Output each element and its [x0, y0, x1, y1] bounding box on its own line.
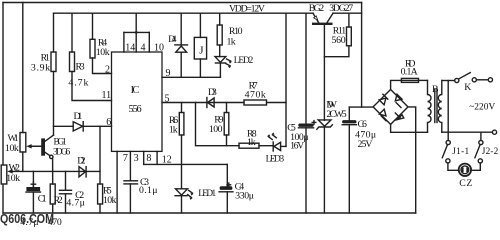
bridge diode bottom-left — [379, 109, 386, 116]
node AC terminal bottom — [492, 130, 496, 134]
svg-text:4: 4 — [141, 43, 146, 54]
svg-text:3: 3 — [134, 153, 139, 164]
diode D2 — [79, 167, 86, 177]
transistor Q BG2 — [312, 13, 333, 120]
svg-text:10: 10 — [154, 43, 164, 54]
svg-text:LED3: LED3 — [266, 154, 285, 164]
svg-text:556: 556 — [129, 104, 142, 115]
wire top rail — [3, 2, 362, 4]
svg-text:16V: 16V — [290, 141, 304, 152]
wire bottom ground rail — [3, 212, 416, 214]
resistor R1 — [51, 13, 56, 135]
svg-text:1k: 1k — [227, 37, 236, 48]
svg-text:10k: 10k — [6, 173, 20, 184]
svg-text:J2-2: J2-2 — [482, 147, 499, 157]
bridge rectifier — [373, 90, 408, 125]
wire VDD bus left segment — [54, 12, 314, 14]
svg-text:J1-1: J1-1 — [452, 147, 469, 157]
svg-text:D3: D3 — [208, 87, 217, 98]
transistor Q BG1 — [30, 135, 54, 184]
transformer B primary winding — [428, 80, 432, 132]
resistor R10 — [217, 13, 222, 56]
svg-text:R10: R10 — [229, 26, 243, 37]
wire bridge bottom to primary — [391, 124, 428, 132]
svg-text:2: 2 — [105, 65, 110, 76]
svg-text:11: 11 — [102, 90, 112, 101]
svg-text:0.1μ: 0.1μ — [139, 185, 158, 196]
svg-text:4.7μ: 4.7μ — [66, 198, 85, 209]
svg-text:BG2: BG2 — [309, 3, 324, 14]
resistor R2 — [50, 184, 55, 213]
wire riser to pin6 — [99, 126, 101, 184]
svg-text:3DG27: 3DG27 — [329, 3, 353, 14]
wire pin 9 — [162, 76, 220, 78]
diode D4 — [175, 13, 188, 77]
zener DW — [317, 120, 333, 213]
svg-text:6: 6 — [106, 117, 111, 128]
LED1 — [175, 189, 193, 213]
svg-text:LED2: LED2 — [234, 56, 254, 66]
wire right supply drop — [361, 3, 363, 108]
svg-text:CZ: CZ — [459, 178, 472, 189]
capacitor C3 — [124, 181, 138, 213]
relay contact J1-1 — [442, 140, 459, 170]
wire plus node to bridge — [349, 106, 373, 108]
transformer B secondary winding — [438, 81, 441, 133]
svg-text:D4: D4 — [168, 34, 176, 45]
svg-text:560: 560 — [332, 35, 346, 46]
wire pin 8 stub — [143, 151, 145, 164]
svg-text:4.7k: 4.7k — [68, 78, 88, 89]
resistor R7 — [244, 100, 286, 105]
svg-text:C1: C1 — [38, 193, 47, 204]
svg-text:1k: 1k — [247, 137, 256, 148]
svg-text:BG1: BG1 — [54, 138, 68, 148]
svg-text:B: B — [432, 84, 439, 95]
LED3 — [267, 133, 286, 151]
svg-text:3.9k: 3.9k — [31, 62, 50, 73]
svg-text:25V: 25V — [358, 139, 373, 150]
wire riser x286 — [285, 13, 287, 146]
LED2 — [215, 57, 232, 78]
resistor R3 — [70, 13, 112, 100]
svg-text:10k: 10k — [5, 143, 19, 154]
wire left border — [2, 3, 4, 214]
wire pin 12 stub — [156, 151, 158, 164]
wire pins 8-12 rail — [144, 163, 228, 165]
svg-text:7: 7 — [123, 153, 128, 164]
svg-text:Q606.COM: Q606.COM — [0, 211, 54, 226]
relay contact J2-2 — [471, 140, 483, 170]
bridge diode bottom-right — [397, 115, 404, 120]
potentiometer W1 — [20, 3, 42, 172]
resistor R8 — [239, 143, 273, 148]
svg-text:14: 14 — [125, 43, 135, 54]
svg-text:0.1A: 0.1A — [401, 66, 418, 77]
resistor R9 — [224, 103, 229, 146]
svg-text:10k: 10k — [96, 47, 110, 58]
diode D3 — [207, 98, 214, 108]
svg-text:330μ: 330μ — [235, 190, 254, 201]
svg-text:C6: C6 — [358, 119, 367, 130]
resistor R11 — [324, 13, 351, 57]
svg-text:R3: R3 — [76, 62, 85, 73]
resistor R6 — [179, 103, 184, 189]
svg-text:~220V: ~220V — [469, 102, 495, 112]
svg-text:470k: 470k — [245, 90, 266, 101]
relay J — [194, 13, 206, 77]
svg-text:J: J — [199, 45, 204, 57]
svg-text:8: 8 — [146, 153, 151, 164]
svg-text:9: 9 — [166, 68, 171, 79]
svg-text:K: K — [464, 82, 471, 93]
capacitor C2 — [60, 171, 72, 213]
resistor R4 — [90, 13, 112, 73]
svg-text:2CW5: 2CW5 — [326, 109, 346, 120]
switch K — [442, 73, 493, 83]
svg-text:D2: D2 — [77, 155, 85, 166]
wire VDD bus right segment — [333, 12, 362, 14]
svg-text:5: 5 — [165, 94, 170, 105]
svg-text:1k: 1k — [169, 124, 178, 135]
wire J2-2 stub — [480, 132, 482, 140]
capacitor C6 — [342, 107, 356, 213]
svg-text:10k: 10k — [103, 195, 116, 206]
wire phase drop to J1-1 — [447, 81, 449, 141]
capacitor C1 — [26, 171, 41, 213]
fuse RD — [391, 78, 428, 89]
socket CZ — [459, 164, 471, 176]
wire wiper net y171 — [11, 170, 100, 172]
svg-text:D1: D1 — [74, 111, 83, 122]
svg-text:12: 12 — [162, 155, 172, 166]
svg-text:3DG6: 3DG6 — [53, 147, 71, 157]
capacitor C4 — [219, 164, 233, 213]
potentiometer W2 — [1, 165, 13, 184]
svg-text:LED1: LED1 — [198, 189, 216, 199]
wire pin 3 stub — [129, 151, 131, 180]
capacitor C5 — [298, 13, 315, 213]
bridge diode top-left — [379, 98, 386, 105]
transformer core — [435, 89, 437, 123]
op-amp U1 IC 556 box — [112, 52, 163, 151]
svg-text:VDD=12V: VDD=12V — [229, 3, 265, 14]
svg-text:100: 100 — [209, 124, 223, 135]
bridge diode top-right — [395, 94, 402, 101]
diode D1 — [54, 122, 112, 131]
wire pins 14-4 bracket — [124, 13, 149, 52]
wire secondary bottom line — [442, 131, 493, 133]
resistor R5 — [98, 184, 103, 213]
wire pin5 drop to R8 — [196, 103, 240, 146]
wire pin 7 stub — [116, 151, 118, 213]
svg-text:W2: W2 — [9, 162, 20, 173]
svg-text:IC: IC — [131, 85, 140, 96]
svg-text:R2: R2 — [54, 195, 63, 206]
wire bridge minus to ground — [408, 107, 416, 213]
wire pin 5 — [162, 102, 244, 104]
